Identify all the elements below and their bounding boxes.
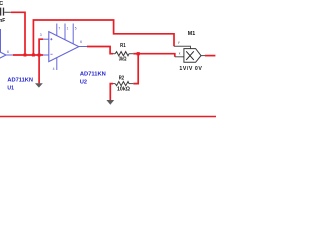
svg-text:10kΩ: 10kΩ — [117, 86, 130, 92]
wire M1 output — [205, 55, 215, 57]
svg-text:2: 2 — [38, 49, 40, 53]
junction at (33.4,55) — [32, 54, 35, 57]
M1 X input lead — [175, 56, 184, 58]
op-amp U2 — [38, 24, 87, 72]
M1 output lead — [201, 55, 205, 57]
U2 minus mark — [50, 53, 52, 55]
multiplier M1 — [174, 31, 205, 72]
wire node to U2 non-inverting input — [39, 39, 43, 55]
U2 top pin leads — [56, 24, 58, 36]
M1 Y input lead — [174, 46, 191, 48]
U2 output lead — [79, 46, 87, 48]
svg-text:6: 6 — [80, 40, 82, 44]
svg-text:M1: M1 — [188, 31, 196, 37]
wire R2 left down to arrow connector — [110, 84, 113, 100]
wire top run to M1 Y input — [33, 20, 174, 55]
svg-text:1: 1 — [67, 26, 69, 30]
ground arrow below R2 — [106, 100, 114, 105]
U1 output lead — [6, 54, 13, 56]
M1 X glyph — [186, 51, 194, 60]
resistor R1 — [113, 43, 133, 62]
svg-text:AD711KN: AD711KN — [7, 78, 33, 84]
wire junction down to R2 — [133, 54, 138, 84]
resistor R2 — [113, 75, 133, 92]
U2 pin 2 lead — [43, 54, 49, 56]
bottom feedback wire — [0, 116, 216, 118]
svg-text:R2: R2 — [119, 75, 125, 81]
svg-text:U1: U1 — [7, 85, 13, 91]
wire capacitor to U1 output node — [11, 12, 25, 55]
junction at (25,55) — [24, 54, 27, 57]
svg-text:x: x — [179, 52, 181, 56]
U2 plus mark — [50, 38, 52, 40]
svg-text:Y: Y — [178, 41, 181, 45]
svg-text:3: 3 — [40, 33, 42, 37]
svg-text:4: 4 — [53, 67, 55, 71]
junction at (137.4,53.7) — [137, 52, 140, 55]
svg-text:5: 5 — [75, 26, 77, 30]
svg-text:R1: R1 — [120, 43, 126, 49]
wire junction to M1 X input (with jog down) — [138, 54, 175, 57]
wire U1 output to U2 inverting input — [13, 54, 43, 56]
svg-text:1V/V 0V: 1V/V 0V — [179, 66, 202, 72]
svg-text:nF: nF — [0, 18, 6, 24]
capacitor C — [0, 1, 11, 24]
wire node down to arrow connector — [38, 55, 40, 83]
wire R1 right to junction — [133, 53, 138, 55]
U2 pin 3 lead — [43, 38, 49, 40]
svg-text:7: 7 — [58, 26, 60, 30]
wire U2 output to R1 — [87, 47, 113, 54]
junction at (39.1,55) — [38, 54, 41, 57]
U2 bottom pin 4 lead — [56, 58, 58, 70]
op-amp U1 (partially visible) — [0, 29, 13, 70]
svg-text:C: C — [0, 1, 3, 7]
svg-text:AD711KN: AD711KN — [80, 71, 106, 77]
svg-text:U2: U2 — [80, 79, 87, 85]
svg-text:6: 6 — [7, 50, 9, 54]
svg-text:3kΩ: 3kΩ — [119, 56, 127, 62]
M1 body — [184, 49, 201, 63]
ground arrow below U1 output node — [35, 83, 43, 87]
U1 top pin lead — [0, 29, 2, 52]
